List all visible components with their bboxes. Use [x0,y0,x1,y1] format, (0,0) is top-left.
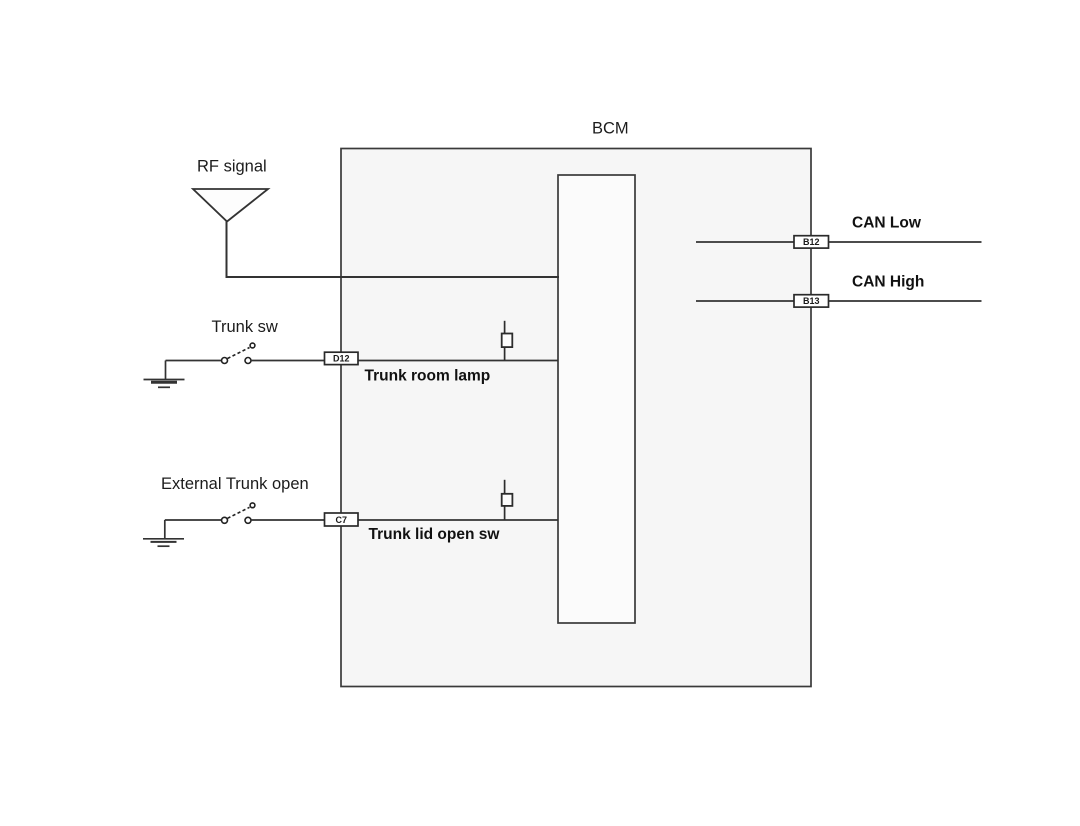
wire antenna to inner module [227,222,560,278]
wire D12 to inner module (Trunk room lamp) [357,360,558,362]
inner module rectangle [558,175,635,623]
svg-text:B12: B12 [803,237,820,247]
wire switch to D12 [251,360,325,362]
connector B13 [794,295,829,307]
wire C7 to inner module (Trunk lid open sw) [357,519,558,521]
svg-text:B13: B13 [803,296,820,306]
resistor (trunk room lamp line) [502,321,513,361]
svg-text:RF signal: RF signal [197,158,267,176]
svg-text:External Trunk open: External Trunk open [161,475,309,493]
CAN High wire [696,300,982,302]
wire ground to switch [165,519,222,521]
CAN Low wire [696,241,982,243]
svg-text:Trunk room lamp: Trunk room lamp [365,368,491,385]
svg-text:CAN Low: CAN Low [852,214,922,231]
switch (external trunk open) [222,503,255,523]
svg-text:CAN High: CAN High [852,274,924,291]
connector D12 [325,352,359,364]
connector C7 [325,513,359,526]
svg-text:C7: C7 [336,515,348,525]
ground (trunk sw) [144,361,185,388]
antenna RF [193,189,268,222]
svg-text:BCM: BCM [592,120,629,138]
wire switch to C7 [251,519,325,521]
svg-text:Trunk lid open sw: Trunk lid open sw [369,526,501,543]
BCM box [341,149,811,687]
connector B12 [794,236,829,248]
svg-text:Trunk sw: Trunk sw [212,318,278,336]
resistor (trunk lid open line) [502,480,513,520]
ground (external trunk open) [143,520,184,546]
svg-text:D12: D12 [333,354,350,364]
switch (trunk sw) [222,343,255,363]
wire ground to switch [166,360,222,362]
